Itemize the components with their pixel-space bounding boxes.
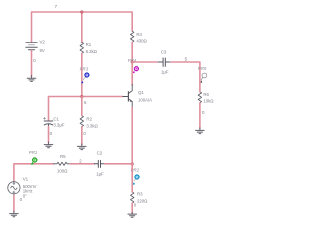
- ground below R6: [196, 128, 205, 134]
- probe PR1: [31, 158, 38, 165]
- ground below R2: [78, 144, 87, 150]
- probe PR5: [200, 73, 207, 83]
- wire emitter to output junction: [131, 108, 133, 165]
- svg-text:Q1: Q1: [138, 90, 144, 95]
- wire battery to ground: [31, 51, 33, 77]
- svg-text:0: 0: [83, 131, 86, 136]
- svg-text:1μF: 1μF: [96, 171, 104, 176]
- svg-text:0°: 0°: [23, 193, 27, 198]
- resistor R1: [80, 42, 83, 53]
- svg-text:R1: R1: [86, 42, 92, 47]
- svg-text:PR1: PR1: [29, 150, 38, 155]
- capacitor C3: [157, 58, 170, 66]
- ground below V1: [10, 211, 19, 217]
- resistor R3: [131, 192, 134, 203]
- wire R2 to ground: [81, 127, 83, 145]
- junction base rail / R2: [80, 95, 83, 98]
- svg-text:2: 2: [79, 159, 82, 164]
- resistor R2: [80, 116, 83, 127]
- wire R3 to ground: [131, 203, 133, 213]
- wire collector node to C3: [132, 61, 157, 63]
- ground below battery: [27, 76, 36, 82]
- svg-text:7: 7: [55, 4, 58, 9]
- wire C3 to R6 branch: [171, 62, 200, 80]
- svg-text:C1: C1: [53, 116, 59, 121]
- transistor Q1: [123, 85, 133, 108]
- wire V1 to ground: [13, 195, 15, 212]
- svg-text:R6: R6: [203, 92, 209, 97]
- wire collector node to Q1: [131, 62, 133, 85]
- wire base junction to R2: [81, 97, 83, 116]
- svg-text:C2: C2: [97, 150, 103, 155]
- capacitor C2: [95, 160, 105, 167]
- wire R6 to ground: [199, 103, 201, 128]
- svg-text:1μF: 1μF: [161, 70, 169, 75]
- wire PR5 corner to R6: [199, 80, 201, 92]
- ac source V1: [8, 181, 20, 194]
- resistor R6: [198, 92, 201, 103]
- probe PR3: [81, 73, 89, 84]
- svg-text:100Ω: 100Ω: [57, 168, 68, 173]
- svg-text:R2: R2: [86, 117, 92, 122]
- battery V2: [26, 43, 37, 50]
- svg-text:0: 0: [202, 110, 205, 115]
- capacitor C1: [44, 117, 53, 126]
- svg-text:V1: V1: [23, 176, 29, 181]
- svg-text:10kΩ: 10kΩ: [203, 98, 214, 103]
- svg-text:C3: C3: [161, 50, 167, 55]
- wire R5 to C2: [71, 163, 95, 165]
- wire C1 to ground: [48, 127, 50, 143]
- svg-text:5: 5: [185, 57, 188, 62]
- svg-text:3.3kΩ: 3.3kΩ: [86, 123, 98, 128]
- svg-text:V2: V2: [40, 40, 46, 45]
- resistor R5: [54, 162, 71, 165]
- svg-text:9V: 9V: [40, 48, 45, 53]
- svg-text:6.2kΩ: 6.2kΩ: [86, 49, 98, 54]
- wire top rail from battery to R4 branch: [32, 12, 133, 42]
- svg-text:0: 0: [50, 131, 53, 136]
- wire C2 to output junction: [105, 163, 133, 165]
- wire V1 to R5 bottom rail: [14, 164, 54, 181]
- junction top rail / R1: [80, 10, 83, 13]
- resistor R4: [131, 31, 134, 42]
- svg-text:220Ω: 220Ω: [137, 199, 148, 204]
- svg-text:R3: R3: [137, 192, 143, 197]
- ground below C1: [44, 142, 53, 148]
- probe PR4: [132, 66, 138, 73]
- svg-text:0: 0: [33, 58, 36, 63]
- svg-text:R5: R5: [60, 154, 66, 159]
- svg-text:3.3μF: 3.3μF: [53, 123, 64, 128]
- svg-text:100A/A: 100A/A: [138, 98, 152, 103]
- wire R1 branch drop from top rail: [81, 12, 83, 42]
- svg-text:430Ω: 430Ω: [136, 39, 147, 44]
- svg-text:R4: R4: [136, 32, 142, 37]
- svg-text:6: 6: [84, 100, 87, 105]
- ground below R3: [128, 212, 137, 217]
- svg-text:PR5: PR5: [198, 66, 207, 71]
- wire R4 to collector node: [131, 42, 133, 62]
- junction emitter / C2: [131, 162, 134, 165]
- wire base rail from C1 corner to Q1 base: [49, 97, 123, 121]
- wire output junction to R3: [131, 164, 133, 192]
- svg-text:PR3: PR3: [80, 66, 89, 71]
- wire R1 to base junction: [81, 53, 83, 96]
- probe PR2: [132, 175, 139, 185]
- junction collector node / C3: [131, 60, 134, 63]
